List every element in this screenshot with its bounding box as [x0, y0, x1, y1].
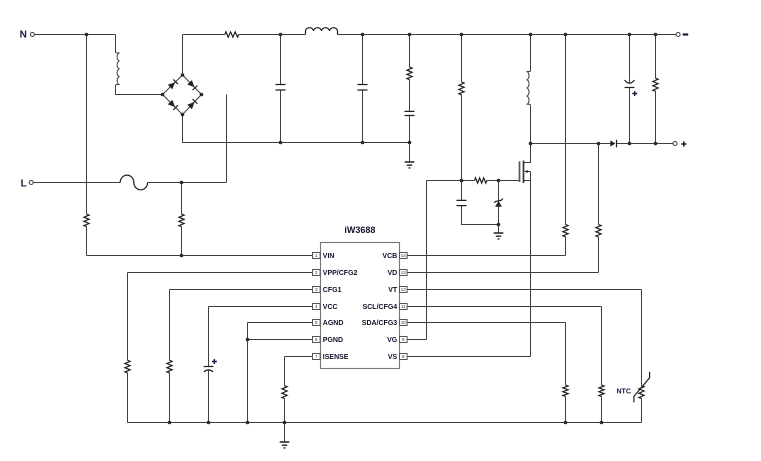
svg-text:10: 10 [401, 320, 407, 325]
svg-text:13: 13 [401, 270, 407, 275]
svg-text:CFG1: CFG1 [323, 287, 342, 294]
svg-text:PGND: PGND [323, 337, 343, 344]
svg-text:VS: VS [388, 354, 398, 361]
svg-text:SDA/CFG3: SDA/CFG3 [362, 320, 398, 327]
svg-text:AGND: AGND [323, 320, 344, 327]
svg-text:VD: VD [387, 270, 397, 277]
svg-text:N: N [20, 29, 27, 40]
svg-text:VG: VG [387, 337, 398, 344]
svg-text:ISENSE: ISENSE [323, 354, 349, 361]
svg-text:14: 14 [401, 253, 407, 258]
svg-text:VIN: VIN [323, 253, 335, 260]
svg-text:VPP/CFG2: VPP/CFG2 [323, 270, 358, 277]
svg-text:VCC: VCC [323, 304, 338, 311]
svg-text:VCB: VCB [382, 253, 397, 260]
svg-text:iW3688: iW3688 [344, 225, 375, 235]
svg-text:SCL/CFG4: SCL/CFG4 [363, 304, 398, 311]
svg-text:VT: VT [388, 287, 398, 294]
svg-text:L: L [21, 178, 27, 189]
svg-text:11: 11 [401, 304, 406, 309]
svg-text:12: 12 [401, 287, 407, 292]
svg-text:NTC: NTC [617, 389, 631, 396]
